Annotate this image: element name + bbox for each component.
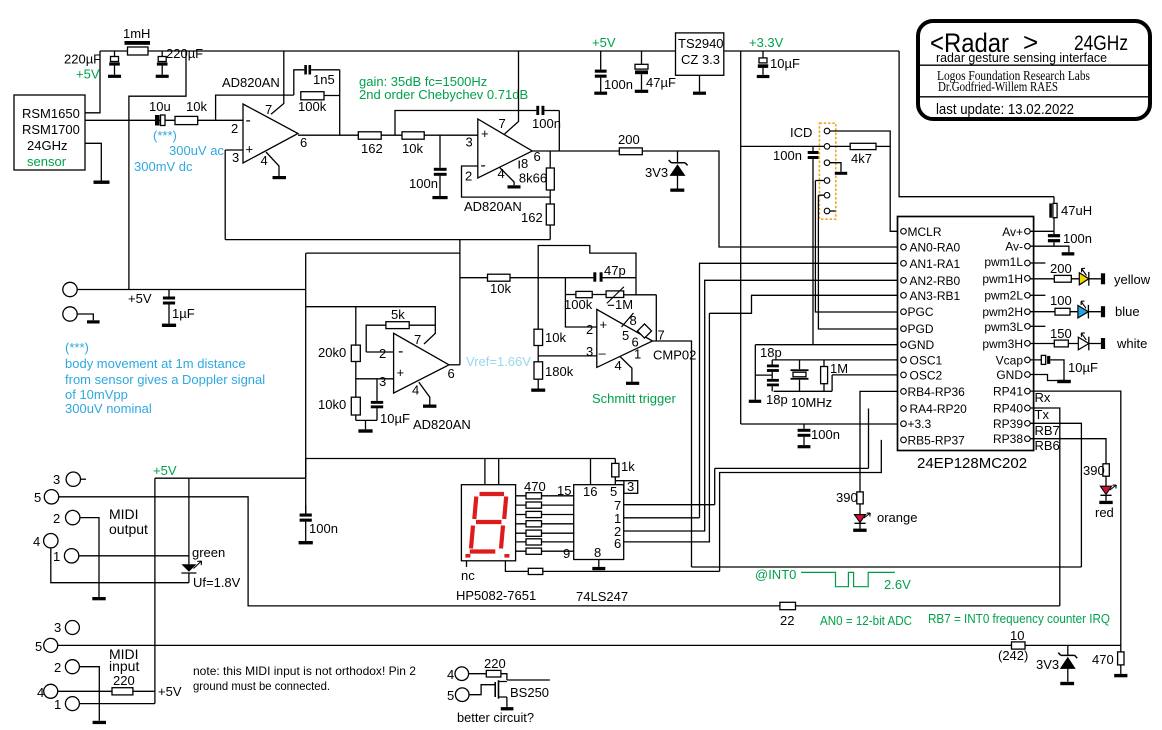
capacitor C 1n5 feedback [294,65,340,95]
svg-text:10k: 10k [402,141,423,156]
ground midi in [93,721,106,724]
svg-text:+3.3V: +3.3V [749,35,784,50]
svg-text:390: 390 [1083,463,1105,478]
svg-text:pwm1L: pwm1L [984,255,1023,269]
pins U3 right [1025,229,1031,442]
svg-text:+: + [246,142,254,157]
svg-text:note: this MIDI input is not o: note: this MIDI input is not orthodox! P… [193,664,416,678]
svg-text:HP5082-7651: HP5082-7651 [456,588,536,603]
svg-text:16: 16 [583,484,597,499]
svg-text:RP38: RP38 [993,432,1023,446]
svg-text:Av+: Av+ [1002,225,1023,239]
svg-text:RA4-RP20: RA4-RP20 [910,402,968,416]
wire ICD pin5 PGD [818,195,897,329]
svg-text:1M: 1M [615,297,633,312]
wire pwm1L stub [1030,262,1045,264]
svg-text:4: 4 [615,358,622,373]
wire U1 pin7 supply [271,51,284,114]
ground U5 [626,382,639,385]
wire GND pin to crystal gnd [755,345,897,400]
svg-text:470: 470 [1092,652,1114,667]
svg-text:100k: 100k [298,99,327,114]
wire INT0 line [692,566,1082,568]
resistor R 220 midi [58,673,182,699]
svg-text:TS2940: TS2940 [678,36,724,51]
svg-text:220µF: 220µF [166,46,203,61]
svg-text:Vcap: Vcap [996,353,1024,367]
wire U1 pin4 [266,152,279,176]
wire +5V to U4 pin7 [306,307,436,344]
svg-text:6: 6 [448,366,455,381]
svg-text:100n: 100n [1063,231,1092,246]
wire nc stub [466,561,468,567]
svg-text:orange: orange [877,510,917,525]
capacitor C 100n +5V rail [594,51,633,95]
svg-text:CMP02: CMP02 [653,348,696,363]
svg-text:10u: 10u [149,99,171,114]
capacitor C 47p [565,263,636,282]
svg-text:GND: GND [908,338,935,352]
svg-text:4k7: 4k7 [851,151,872,166]
svg-text:3V3: 3V3 [1036,657,1059,672]
svg-text:CZ 3.3: CZ 3.3 [681,52,720,67]
LED D white with resistor 150 [1030,326,1147,351]
wire ICD pin1 MCLR [830,131,898,231]
svg-text:sensor: sensor [27,154,67,169]
wire midi out pin2 gnd [80,518,99,597]
capacitor 220uF left [64,51,121,82]
LED D red [1095,485,1116,520]
svg-text:MIDI: MIDI [109,506,139,522]
svg-text:body movement at 1m distance: body movement at 1m distance [65,356,246,371]
wire RP40 Tx [1030,408,1060,606]
svg-text:3: 3 [379,374,386,389]
svg-text:AN0-RA0: AN0-RA0 [910,241,961,255]
wire +5V display rail [306,459,616,485]
svg-text:10µF: 10µF [1068,360,1098,375]
svg-text:100n: 100n [811,427,840,442]
svg-text:AD820AN: AD820AN [464,199,522,214]
svg-text:220: 220 [113,673,135,688]
ground crystal [749,400,761,403]
svg-text:white: white [1116,336,1147,351]
svg-text:ICD: ICD [790,125,812,140]
zener D 3V3 rx [1036,646,1077,686]
ground U6 [592,567,605,570]
svg-text:Dr.Godfried-Willem RAES: Dr.Godfried-Willem RAES [938,79,1058,94]
transistor Q BS250 [447,656,550,725]
net label 3 box [624,479,638,494]
svg-text:-: - [398,343,403,360]
svg-text:100k: 100k [564,297,593,312]
wire ICD pin6 stub [830,210,836,212]
pin labels U3 left [908,225,968,448]
resistor R 8k66 [519,151,554,204]
svg-text:100n: 100n [773,148,802,163]
svg-text:24GHz: 24GHz [27,138,67,153]
wire +3.3 branch down [740,51,742,424]
svg-text:10µF: 10µF [380,411,410,426]
svg-text:1k: 1k [621,459,635,474]
svg-text:RP41: RP41 [993,385,1023,399]
wire U4 pin4 gnd [419,382,430,404]
resistor R 162 [358,132,382,156]
svg-text:4: 4 [412,383,419,398]
svg-text:+5V: +5V [128,291,152,306]
svg-text:1M: 1M [830,361,848,376]
crystal X 10MHz [791,369,833,410]
wire RA4 staircase [715,409,869,469]
wire +5V distribution vertical [305,253,307,513]
svg-text:RB6: RB6 [1035,438,1060,453]
resistor R 10 (242) [998,628,1028,663]
svg-text:150: 150 [1050,326,1072,341]
svg-text:5: 5 [622,328,629,343]
svg-text:2: 2 [586,322,593,337]
wire OSC1 net [772,360,897,369]
svg-text:390: 390 [836,490,858,505]
wire ICD pin3 gnd [830,163,841,172]
svg-text:15: 15 [557,483,571,498]
svg-text:1: 1 [634,347,641,362]
svg-text:10k: 10k [186,99,207,114]
wire midi out pin1 [79,555,189,557]
wire RP41 Rx [1030,391,1121,645]
svg-text:5: 5 [447,688,454,703]
capacitor C 100n filter top [395,106,561,151]
resistor R 390 red [1083,463,1109,486]
svg-text:OSC1: OSC1 [910,353,943,367]
svg-text:BS250: BS250 [510,685,549,700]
wire U6 pin7 to INT0 [624,468,715,504]
capacitor C 100n ICD [773,146,819,345]
svg-text:AN2-RB0: AN2-RB0 [910,274,961,288]
svg-text:blue: blue [1115,304,1140,319]
svg-text:red: red [1095,505,1114,520]
wire midi in pin5 Rx line [58,644,1121,646]
svg-text:8: 8 [630,313,637,328]
svg-text:Schmitt trigger: Schmitt trigger [592,391,676,406]
svg-text:(242): (242) [998,648,1028,663]
svg-text:pwm3L: pwm3L [984,320,1023,334]
comparator U5 CMP02 [586,309,696,373]
svg-text:pwm1H: pwm1H [982,272,1023,286]
resistor R 10k divider [534,278,566,346]
wire ICD pin4 PGC [815,181,897,313]
svg-text:ground must be connected.: ground must be connected. [193,679,330,693]
svg-text:7: 7 [658,328,665,343]
connector gnd input [63,307,100,324]
svg-text:5k: 5k [391,307,405,322]
svg-text:24EP128MC202: 24EP128MC202 [917,455,1027,472]
wire U2 pin4 [500,168,514,186]
svg-text:162: 162 [521,210,543,225]
capacitor C 100n to gnd [409,135,448,199]
svg-text:RSM1650: RSM1650 [22,106,80,121]
svg-text:2.6V: 2.6V [884,577,911,592]
svg-text:8k66: 8k66 [519,171,547,186]
resistor R 200 AN0 [618,132,642,155]
svg-text:5: 5 [610,484,617,499]
svg-text:5: 5 [34,490,41,505]
wire divider tap to pin3 [538,355,597,357]
wire Av+ [1030,230,1054,232]
svg-text:2nd order Chebychev 0.71dB: 2nd order Chebychev 0.71dB [359,87,528,102]
op-amp U1 AD820AN [222,75,307,168]
svg-text:-: - [246,112,251,129]
ground Vcap [1057,380,1071,383]
ground ICD [835,172,847,175]
resistor R 470 8th dp [505,561,719,575]
sensor module RSM1650/RSM1700 24GHz [14,95,85,170]
LED D blue with resistor 100 [1030,293,1139,319]
svg-text:6: 6 [300,135,307,150]
connector MIDI output [33,472,148,564]
wire midi out pin5 Tx [59,497,1060,606]
svg-text:+5V: +5V [592,35,616,50]
wire RB4 to orange LED [860,391,898,492]
resistor R 10k0 [318,397,360,420]
svg-text:47µF: 47µF [646,75,676,90]
svg-text:output: output [109,521,148,537]
wire sensor gnd pin [85,143,101,180]
resistor R 470 rx [1092,646,1127,678]
svg-text:yellow: yellow [1114,272,1151,287]
svg-text:10k: 10k [545,330,566,345]
svg-text:100n: 100n [409,176,438,191]
ground Av- [1062,252,1075,255]
wire pwm3L stub [1030,325,1045,327]
svg-text:Uf=1.8V: Uf=1.8V [193,575,241,590]
wire U4 +input divider [356,362,394,398]
wire RP39 RB7 [1030,423,1081,567]
ground sensor [94,181,110,184]
svg-text:100n: 100n [604,77,633,92]
svg-text:200: 200 [618,132,640,147]
wire feedback jog [538,246,636,295]
svg-text:+5V: +5V [153,463,177,478]
wire U2 feedback loop [462,166,551,197]
wire pwm2L stub [1030,294,1045,296]
svg-text:4: 4 [37,685,44,700]
ground divider [358,429,372,432]
wire GND right pin [1030,375,1064,381]
svg-text:9: 9 [563,546,570,561]
waveform INT0 [801,572,895,586]
resistor R 22 [780,602,796,628]
svg-text:2: 2 [465,169,472,184]
svg-text:1n5: 1n5 [313,72,335,87]
svg-text:6: 6 [614,536,621,551]
svg-text:10MHz: 10MHz [791,395,832,410]
svg-text:+5V: +5V [76,67,100,82]
capacitor 10u input coupling [149,99,171,126]
ground U2 pin4 [508,185,521,188]
connector ICD [790,123,836,219]
wire Vref rail lower [306,240,460,365]
inductor L 1mH [123,26,150,55]
svg-text:22: 22 [780,613,794,628]
svg-text:3V3: 3V3 [645,165,668,180]
wire U5 pin4 gnd [620,357,632,382]
wire 10k to U2 pin3 [424,134,478,136]
svg-text:AN0 = 12-bit ADC: AN0 = 12-bit ADC [820,613,912,628]
connector MIDI input [35,620,139,712]
svg-text:4: 4 [447,667,454,682]
svg-text:100: 100 [1050,293,1072,308]
svg-text:RB5-RP37: RB5-RP37 [908,433,966,447]
svg-text:300uV nominal: 300uV nominal [65,401,152,416]
wire 162 to 10k [381,134,402,136]
IC U3 24EP128MC202 [898,217,1034,473]
wire node P vertical [565,278,596,327]
capacitor C 18p upper [755,345,781,379]
svg-text:7: 7 [265,102,272,117]
svg-text:470: 470 [524,479,546,494]
svg-text:MCLR: MCLR [908,225,942,239]
LED D yellow with resistor 200 [1030,261,1151,287]
svg-text:+: + [397,365,405,380]
svg-text:20k0: 20k0 [318,345,346,360]
svg-text:1: 1 [54,697,61,712]
svg-text:10k0: 10k0 [318,397,346,412]
svg-text:4: 4 [261,153,268,168]
svg-text:162: 162 [361,141,383,156]
resistor R 1k [612,459,638,485]
svg-text:3: 3 [54,620,61,635]
wire Av- gnd [1030,246,1069,252]
note blue body movement [65,340,265,416]
capacitor C 1uF [162,290,195,328]
resistor R 4k7 [850,143,890,166]
wire U2 pin7 supply [505,51,519,134]
svg-text:47p: 47p [604,263,626,278]
display HP5082-7651 [456,485,536,603]
svg-text:Tx: Tx [1035,407,1050,422]
svg-text:300uV ac: 300uV ac [169,143,224,158]
wire 10k to node [510,277,565,279]
svg-text:input: input [109,658,139,674]
svg-text:radar gesture sensing interfac: radar gesture sensing interface [936,51,1107,65]
svg-text:last update: 13.02.2022: last update: 13.02.2022 [936,102,1074,118]
resistor R 180k [534,346,574,389]
ground U1 pin4 [273,176,287,179]
wire RP38 RB6 [1030,439,1106,464]
svg-text:RB7: RB7 [1035,423,1060,438]
LED D green [181,478,240,590]
pin labels U3 right [982,225,1023,446]
svg-text:47uH: 47uH [1061,203,1092,218]
svg-text:18p: 18p [766,392,788,407]
wire OSC2 net [774,375,898,391]
svg-text:8: 8 [521,156,528,171]
svg-text:GND: GND [996,368,1023,382]
svg-text:pwm2H: pwm2H [982,305,1023,319]
svg-text:+3.3: +3.3 [908,417,932,431]
svg-text:180k: 180k [545,364,574,379]
svg-text:pwm3H: pwm3H [982,337,1023,351]
wire sensor +5V pin [85,51,100,113]
svg-text:2: 2 [54,660,61,675]
svg-text:2: 2 [53,511,60,526]
svg-text:@INT0: @INT0 [755,567,796,582]
svg-text:+: + [481,126,489,141]
capacitor C 18p lower [766,379,788,407]
connector +5V input [63,282,306,306]
capacitor 220uF right [156,46,203,78]
svg-text:PGC: PGC [908,305,934,319]
wire U5 output [653,341,692,567]
svg-text:3: 3 [232,150,239,165]
wire Vref rail upper [225,150,550,240]
svg-text:RB7 = INT0 frequency counter I: RB7 = INT0 frequency counter IRQ [928,611,1110,626]
wire RB5 staircase [720,440,882,572]
capacitor C 10uF 3.3V [757,51,800,78]
resistor R 10k horizontal [488,274,512,296]
wire AN1 to U6 pin1 [624,263,898,518]
svg-text:3: 3 [586,344,593,359]
resistor R 20k0 [318,307,360,362]
svg-text:RP40: RP40 [993,402,1023,416]
resistor R 390 orange [836,490,863,514]
op-amp U4 AD820AN Vref [379,332,471,432]
wire +5V top rail [100,50,899,52]
svg-text:200: 200 [1050,261,1072,276]
capacitor C 10uF Vref [371,379,410,426]
regulator U TS2940 CZ 3.3 [676,33,724,95]
svg-text:AN3-RB1: AN3-RB1 [910,289,961,303]
resistor R 162 lower [521,204,554,240]
svg-text:220: 220 [484,656,506,671]
wire midi in pin2 gnd [79,667,99,721]
svg-text:100n: 100n [532,116,561,131]
svg-text:green: green [192,545,225,560]
svg-text:1: 1 [53,549,60,564]
svg-text:300mV dc: 300mV dc [134,159,193,174]
ground U4 [423,405,436,408]
svg-text:AD820AN: AD820AN [413,417,471,432]
svg-text:OSC2: OSC2 [910,368,943,382]
op-amp U2 AD820AN [464,116,541,214]
wire U4 output [449,364,460,366]
svg-text:1µF: 1µF [172,306,195,321]
svg-text:2: 2 [379,346,386,361]
IC U6 74LS247 [557,483,628,604]
resistor R 10k filter [402,132,424,156]
svg-text:5: 5 [35,639,42,654]
svg-text:2: 2 [231,121,238,136]
svg-text:RP39: RP39 [993,417,1023,431]
capacitor C 100n +5V midi [299,505,338,544]
wire U2 output [532,150,619,152]
wire Vref to comparator [460,277,488,279]
svg-text:–: – [599,346,607,361]
wire U1 output [298,134,358,136]
wire 200 to AN0 [642,151,897,247]
svg-text:RSM1700: RSM1700 [22,122,80,137]
svg-text:10µF: 10µF [770,56,800,71]
svg-text:7: 7 [499,116,506,131]
svg-text:3: 3 [466,135,473,150]
wire AN3 to U6 pin6 [624,295,898,542]
title block [918,21,1150,119]
resistor R 100k feedback [298,70,340,135]
svg-text:3: 3 [627,479,634,494]
svg-text:pwm2L: pwm2L [984,288,1023,302]
capacitor C 10uF Vcap [1030,355,1098,380]
resistor R 100k comparator [564,291,606,312]
wire sensor signal out [85,119,243,121]
